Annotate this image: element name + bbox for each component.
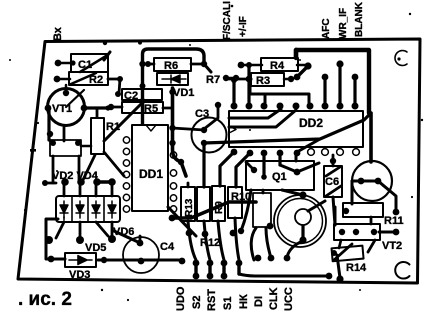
wire R14 leads — [331, 208, 375, 283]
svg-text:Вх: Вх — [52, 26, 64, 41]
wire VT1 base to R2 — [65, 85, 68, 93]
wire R5 right to bus — [163, 107, 172, 110]
resistor R11 — [343, 203, 404, 227]
resistor R13 — [181, 187, 195, 221]
wire VT1 left leg down to loop rect — [47, 108, 91, 156]
wire bottom-left VD3 feed — [46, 219, 65, 262]
svg-text:DD1: DD1 — [139, 167, 163, 181]
capacitor C1 — [71, 54, 108, 72]
DD1 left open pins — [123, 137, 129, 212]
wire C1 exit hook — [104, 52, 110, 60]
wire VD1 bottom to vertical bus x172 — [169, 88, 186, 176]
box below R11 — [334, 224, 380, 240]
wire DD1 bottom-right diagonal — [168, 207, 196, 236]
IC DD1 — [132, 125, 168, 211]
svg-text:C6: C6 — [325, 176, 339, 188]
wire DD2 interior trace 1 — [229, 109, 281, 118]
svg-text:DD2: DD2 — [299, 116, 323, 130]
wire left leg to 3-pad box — [334, 207, 337, 225]
resistor R6 — [154, 58, 191, 72]
capacitor C3 — [192, 108, 227, 153]
wire R4 right to loop — [294, 62, 312, 80]
wire R4 left lead — [238, 62, 262, 69]
svg-text:R11: R11 — [384, 215, 404, 227]
diode symbols inside array — [60, 201, 116, 220]
svg-text:Q1: Q1 — [272, 171, 287, 183]
diode VD3 — [65, 253, 96, 281]
DD2 bottom open pins — [308, 149, 360, 156]
svg-text:R12: R12 — [200, 237, 220, 249]
svg-text:DI: DI — [253, 296, 265, 307]
svg-text:CLK: CLK — [268, 287, 280, 310]
capacitor C7 big circle — [274, 191, 326, 247]
wire VT1-R5 node — [97, 104, 122, 117]
wire VT1 right to R1 — [84, 105, 111, 110]
svg-text:UCC: UCC — [283, 287, 295, 311]
wire vertical x249 to DD2 — [247, 64, 250, 106]
wire R3 underside feed — [250, 76, 309, 104]
wire vertical x234 to DD2 — [231, 77, 237, 106]
wire R6 right lead — [191, 61, 211, 72]
diode array bottom pads — [45, 222, 116, 244]
svg-text:C2: C2 — [124, 90, 138, 102]
resistor R14 — [332, 246, 368, 274]
corner mark C bottom-right — [395, 262, 409, 279]
svg-text:VD1: VD1 — [173, 87, 194, 99]
wire R2 right to C2 — [108, 76, 123, 97]
transistor VT2 circle — [352, 161, 392, 201]
wire C3 bottom pad across DD2 — [204, 113, 371, 143]
svg-text:VD3: VD3 — [69, 269, 90, 281]
wire stub pads above DD2 — [322, 60, 359, 106]
DD2 top edge pads — [231, 103, 359, 110]
wire R13 top lead — [187, 183, 190, 187]
wire loop rect legs to diode pads — [42, 156, 79, 186]
svg-text:R7: R7 — [206, 74, 220, 86]
svg-text:+/-IF: +/-IF — [238, 16, 249, 37]
node R7 label and pads — [206, 74, 239, 86]
wire R2 left lead — [54, 76, 70, 83]
wire Q1 to circle top pad — [282, 190, 303, 195]
IC DD2 — [229, 111, 363, 147]
svg-text:НК: НК — [238, 294, 250, 309]
svg-text:S1: S1 — [222, 297, 234, 310]
diode array top pads — [61, 178, 116, 196]
wire C4 area — [98, 231, 182, 263]
svg-text:R4: R4 — [270, 60, 285, 72]
svg-text:S2: S2 — [191, 296, 203, 309]
wire DD2 interior trace 2 — [229, 110, 296, 127]
svg-text:R14: R14 — [346, 262, 367, 274]
svg-text:RST: RST — [206, 289, 218, 311]
wire C6 leads — [330, 155, 336, 225]
resistor R12 body — [197, 187, 220, 249]
wire R6 left lead — [144, 61, 154, 67]
board outline — [18, 39, 420, 283]
wire Q1 bottom-left curve — [238, 190, 251, 234]
svg-text:R5: R5 — [144, 103, 158, 115]
svg-text:. ис. 2: . ис. 2 — [18, 289, 72, 310]
svg-text:R13: R13 — [184, 198, 195, 217]
wire loop stub left — [294, 50, 298, 57]
svg-text:BLANK: BLANK — [354, 1, 365, 37]
wire DD2 bottom-left diagonals — [220, 152, 234, 186]
corner mark C top-right — [395, 51, 407, 66]
wire power loop trace top-right — [296, 50, 369, 113]
capacitor C6 — [324, 166, 342, 197]
resistor R3 — [251, 73, 284, 87]
wire VT2 right to R11 area — [378, 181, 399, 235]
wire R1 diagonal to R5 — [104, 103, 142, 141]
junction pads below resistor bank — [186, 230, 237, 238]
transistor Q1 — [246, 161, 314, 190]
capacitor C4 — [123, 237, 175, 273]
wire C1 left lead — [55, 60, 76, 67]
transistor VT1 — [45, 89, 88, 126]
wire R7 node to R3 — [227, 76, 252, 83]
svg-text:R3: R3 — [256, 75, 270, 87]
diode VD1 — [157, 73, 194, 99]
svg-text:WR_IF: WR_IF — [338, 8, 349, 39]
diode array VD2 VD4 block — [52, 170, 120, 222]
svg-text:UDO: UDO — [175, 286, 187, 311]
wire C3 emitter down to R12 — [202, 143, 205, 187]
wire C3 top pad to bus — [172, 128, 204, 130]
wire connector curves right side — [239, 228, 332, 279]
resistor R5 — [122, 102, 163, 115]
connector pads bottom — [179, 255, 291, 280]
capacitor C2 — [122, 89, 162, 102]
svg-text:VD2 VD4: VD2 VD4 — [52, 170, 99, 182]
resistor R2 — [69, 72, 108, 86]
wire loop rect below Q1 — [253, 190, 273, 229]
svg-text:C4: C4 — [160, 241, 175, 253]
wire diagonal C1-R2 strike — [66, 90, 84, 107]
top edge blobs — [103, 41, 107, 45]
resistor R4 — [261, 58, 298, 72]
wire R3 right lead — [261, 78, 293, 81]
DD1 right open pins — [170, 152, 176, 212]
pads on 3-pad box — [339, 229, 377, 235]
wire loop down to VT2 top — [369, 113, 373, 162]
left edge dash mark — [30, 149, 36, 152]
svg-text:VT2: VT2 — [382, 240, 402, 252]
wire thick horizontal through resistor bank — [169, 202, 256, 221]
resistor R9 — [212, 186, 225, 221]
resistor R10 — [228, 187, 251, 218]
wire R-bank bottom curves to connector — [188, 218, 239, 260]
wire VT2 left lead down to R11 — [351, 181, 354, 204]
svg-text:R6: R6 — [164, 60, 178, 72]
svg-text:AFC: AFC — [321, 18, 332, 39]
svg-text:C3: C3 — [195, 108, 209, 120]
wire DD2 pad 297 diagonal — [297, 139, 320, 152]
resistor R1 — [91, 118, 120, 154]
wire vertical bus x142 — [139, 49, 204, 124]
DD2 bottom left pads — [231, 149, 301, 157]
wire Q1 feeds — [246, 153, 319, 180]
wire R1 bottom diagonals — [81, 152, 124, 184]
wire C3 top pad stub up-right — [204, 102, 221, 129]
